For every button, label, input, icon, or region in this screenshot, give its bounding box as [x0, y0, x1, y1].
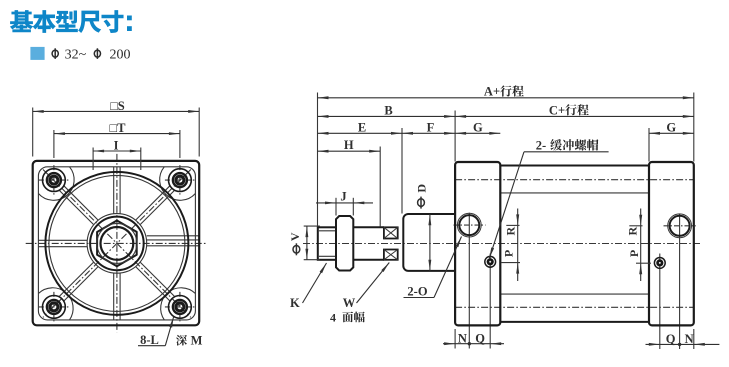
svg-text:32~: 32~ [65, 47, 87, 62]
svg-text:I: I [114, 138, 119, 152]
svg-text:H: H [344, 138, 354, 152]
svg-text:J: J [340, 189, 346, 203]
svg-text:K: K [290, 296, 300, 310]
svg-text:□T: □T [110, 121, 127, 135]
svg-text:P: P [502, 250, 516, 257]
svg-text:M: M [191, 333, 203, 347]
svg-text:V: V [288, 232, 302, 241]
svg-text:8-L: 8-L [140, 333, 159, 347]
svg-text:P: P [627, 250, 641, 257]
svg-text:A+: A+ [484, 85, 500, 99]
svg-text:G: G [473, 120, 483, 134]
svg-text:N: N [458, 331, 467, 345]
svg-text:F: F [427, 120, 435, 134]
svg-text:B: B [384, 103, 392, 117]
svg-text:Q: Q [475, 332, 485, 346]
svg-text:□S: □S [110, 99, 125, 113]
svg-text:C+: C+ [549, 103, 565, 117]
svg-text:200: 200 [110, 47, 131, 62]
svg-text:W: W [343, 296, 356, 310]
svg-text:R: R [504, 226, 518, 235]
svg-text:G: G [666, 120, 676, 134]
svg-text:2-: 2- [536, 138, 546, 152]
svg-text:2-O: 2-O [407, 285, 427, 299]
svg-text:4: 4 [330, 310, 336, 324]
svg-text:R: R [626, 226, 640, 235]
svg-text:N: N [685, 332, 694, 346]
svg-text:E: E [358, 120, 366, 134]
svg-text:D: D [414, 184, 428, 193]
svg-text:Q: Q [666, 332, 676, 346]
